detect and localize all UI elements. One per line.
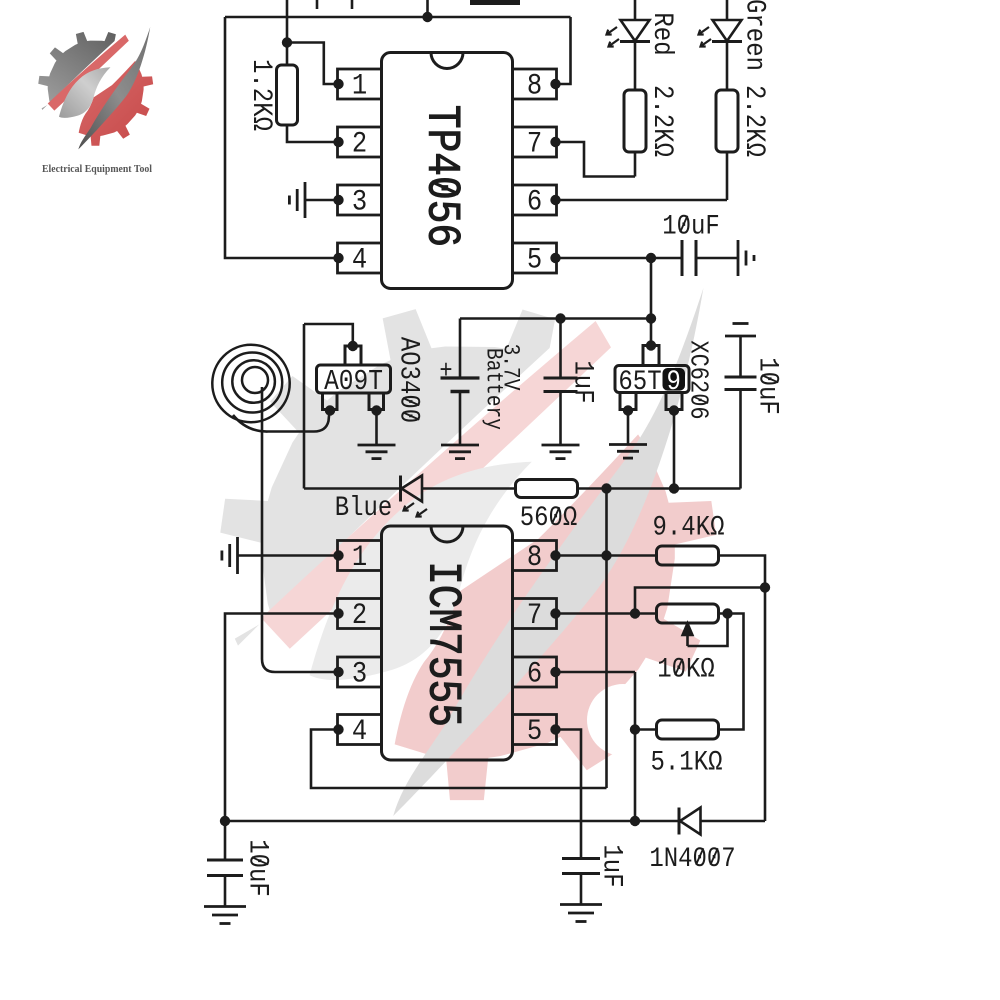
wire branch to pot left <box>635 588 765 614</box>
diode D4 1N4007 triangle <box>680 808 701 835</box>
svg-text:1N4007: 1N4007 <box>649 842 735 874</box>
U3 top pin box <box>643 346 659 366</box>
LED D1 arrow 2 <box>609 39 620 47</box>
wire pin6 right <box>556 671 636 674</box>
label XC6206 <box>683 340 712 419</box>
label C3 10uF <box>752 357 784 415</box>
label R2 2.2KΩ <box>646 85 678 157</box>
wire rail to Q1 top pin <box>304 324 353 346</box>
svg-text:1: 1 <box>352 541 367 574</box>
battery BT1 plate short <box>451 390 470 394</box>
wire coil center to U2 pin3 <box>262 387 339 672</box>
wire R6 left <box>635 728 657 731</box>
label 10KΩ <box>657 653 715 685</box>
U1 pin 1 number <box>352 70 367 103</box>
wire pot right to R6 <box>719 614 744 730</box>
U2 pin 2 number <box>352 599 367 632</box>
wire C4 bottom lead <box>224 876 227 907</box>
node Q1 top pin <box>348 341 358 351</box>
logo silver swoosh <box>59 67 111 118</box>
U2 pin 2 box <box>338 599 382 629</box>
wire R1 top lead <box>286 43 289 66</box>
label C2 1uF <box>567 360 599 403</box>
node pot left junction <box>630 608 640 618</box>
wire C3 bottom lead <box>739 390 742 489</box>
svg-text:5: 5 <box>527 715 542 748</box>
ground U3 <box>609 445 647 459</box>
wire D3 to R4 <box>422 487 516 490</box>
wire wiper to pot right <box>688 614 728 647</box>
wire coil tail to Q1 left pin <box>233 411 330 432</box>
RV1 wiper arrow <box>683 624 693 647</box>
U2 pin 5 box <box>513 715 557 745</box>
U2 pin 1 number <box>352 541 367 574</box>
cutoff black bar <box>470 0 520 5</box>
U2 pin 7 node <box>550 608 560 618</box>
svg-text:XC6206: XC6206 <box>683 340 712 419</box>
LED D2 green triangle <box>713 20 742 41</box>
resistor R2 2.2K body <box>624 90 646 152</box>
ground Q1 <box>358 445 396 459</box>
svg-text:1.2KΩ: 1.2KΩ <box>245 59 277 131</box>
Q1 top pin box <box>345 346 361 365</box>
LED D3 blue triangle <box>402 476 423 502</box>
IC U2 ICM7555 body <box>382 526 513 760</box>
wire U3 right pin down <box>673 411 676 489</box>
wire left rail down <box>303 324 306 489</box>
U2 notch <box>431 526 463 542</box>
svg-text:6: 6 <box>527 186 542 219</box>
LED D3 arrow 2 <box>417 509 428 517</box>
svg-text:Battery: Battery <box>480 348 506 430</box>
svg-text:7: 7 <box>527 599 542 632</box>
svg-text:Blue: Blue <box>335 491 393 523</box>
resistor R4 560 body <box>516 480 578 498</box>
wire pin7 to RV1 <box>556 612 657 615</box>
U1 pin 2 number <box>352 128 367 161</box>
wire C3 top lead <box>739 336 742 377</box>
svg-text:Electrical Equipment Tool: Electrical Equipment Tool <box>42 164 152 175</box>
label Red <box>646 12 678 55</box>
U1 pin 3 number <box>352 186 367 219</box>
U2 pin 1 node <box>333 550 343 560</box>
wire gnd to pin1 <box>238 554 339 557</box>
wire pin2 down to C4 <box>225 614 339 861</box>
label 1N4007 <box>649 842 735 874</box>
logo silver swoosh <box>310 462 532 680</box>
svg-text:5: 5 <box>527 244 542 277</box>
diode D4 cathode bar <box>678 808 681 835</box>
U2 pin 4 number <box>352 715 367 748</box>
svg-text:AO3400: AO3400 <box>393 337 425 423</box>
wire battery + lead <box>459 319 462 379</box>
logo gray horn <box>393 288 703 816</box>
transistor Q1 A09T body <box>317 365 391 393</box>
wire R4 to C3 <box>578 487 741 490</box>
LED D2 arrow 1 <box>699 27 710 35</box>
svg-text:1: 1 <box>352 70 367 103</box>
ground C4 <box>204 907 246 924</box>
U1 pin 8 node <box>550 79 560 89</box>
label 1.2KΩ <box>245 59 277 131</box>
U1 pin 7 box <box>513 127 557 157</box>
node U3 right pin <box>669 405 679 415</box>
capacitor C5 plate 1 <box>562 857 600 860</box>
svg-text:560Ω: 560Ω <box>520 501 578 533</box>
U2 pin 8 number <box>527 541 542 574</box>
LED D2 arrow 2 <box>701 39 712 47</box>
label 3.7V <box>497 344 523 391</box>
node Q1 right pin <box>371 405 381 415</box>
U2 pin 3 box <box>338 657 382 687</box>
svg-text:8: 8 <box>527 70 542 103</box>
Q1 left pin box <box>323 393 338 410</box>
wire R1 bottom to pin2 <box>287 125 339 142</box>
resistor R1 1.2K body <box>277 65 298 125</box>
U2 pin 1 box <box>338 541 382 571</box>
LED D1 red cathode bar <box>620 40 650 43</box>
regulator U3 65T9 body <box>615 366 689 393</box>
wire C1 to gnd <box>696 257 738 260</box>
svg-text:Green: Green <box>739 0 771 71</box>
svg-text:6: 6 <box>527 658 542 691</box>
resistor R5 9.4K body <box>657 546 719 565</box>
U1 pin 4 box <box>338 243 382 273</box>
svg-text:10KΩ: 10KΩ <box>657 653 715 685</box>
wire pin8 to top rail <box>556 17 571 84</box>
U1 pin 4 node <box>333 253 343 263</box>
node mid rail 65T9 <box>646 313 656 323</box>
Q1 right pin box <box>369 393 384 410</box>
U1 pin 5 node <box>550 253 560 263</box>
svg-text:2: 2 <box>352 599 367 632</box>
capacitor C2 plate 1 <box>544 377 578 380</box>
ground C3 flipped <box>725 324 756 337</box>
label ICM7555 <box>416 561 469 727</box>
wire top stub <box>426 0 429 17</box>
node pin8 junction <box>601 550 611 560</box>
U1 pin 6 number <box>527 186 542 219</box>
U2 pin 7 box <box>513 599 557 629</box>
svg-text:9.4KΩ: 9.4KΩ <box>653 511 725 543</box>
IC U1 TP4056 body <box>382 53 513 289</box>
capacitor C3 plate 2 <box>725 388 757 391</box>
wire top rail <box>225 16 571 19</box>
svg-text:+: + <box>439 357 452 386</box>
svg-text:2.2KΩ: 2.2KΩ <box>646 85 678 157</box>
LED D2 green top lead <box>726 0 729 21</box>
U2 pin 6 number <box>527 658 542 691</box>
inductor L1 coil <box>242 367 268 393</box>
capacitor C3 plate 1 <box>725 376 757 379</box>
label 65T <box>618 365 661 397</box>
LED D1 arrow 1 <box>607 27 618 35</box>
wire pin5 to C5 <box>556 730 582 859</box>
U3 pin marker 9 <box>663 368 686 391</box>
wire pin6 vertical down <box>634 672 637 821</box>
U1 pin 6 node <box>550 195 560 205</box>
ground TP4056 pin3 <box>289 182 305 218</box>
ground C5 <box>560 905 602 922</box>
U1 pin 7 node <box>550 137 560 147</box>
LED D1 red bottom lead <box>634 42 637 91</box>
node R6 left junction <box>630 724 640 734</box>
logo gear red sector <box>38 32 153 146</box>
label 560Ω <box>520 501 578 533</box>
U1 pin 2 box <box>338 127 382 157</box>
U1 pin 5 box <box>513 243 557 273</box>
U1 pin 7 number <box>527 128 542 161</box>
wire vcc vertical <box>605 489 608 789</box>
U1 pin 3 box <box>338 185 382 215</box>
U1 pin 5 number <box>527 244 542 277</box>
logo red band <box>48 35 129 111</box>
node U3 top pin <box>646 340 656 350</box>
wire pin4 left loop <box>225 17 339 258</box>
U2 pin 8 box <box>513 541 557 571</box>
ground C2 <box>542 445 580 459</box>
U1 pin 2 node <box>333 137 343 147</box>
capacitor C1 plate 1 <box>681 240 684 276</box>
U2 pin 4 box <box>338 715 382 745</box>
U2 pin 3 number <box>352 658 367 691</box>
logo gear gray sector <box>220 309 716 800</box>
node R1 top junction <box>282 37 292 47</box>
svg-text:4: 4 <box>352 715 367 748</box>
logo gear red sector <box>220 309 716 800</box>
svg-text:7: 7 <box>527 128 542 161</box>
wire cutoff tick A <box>316 0 319 9</box>
LED D3 arrow 1 <box>404 503 415 511</box>
U1 pin 3 node <box>333 195 343 205</box>
node R5 branch <box>760 582 770 592</box>
LED D1 red top lead <box>634 0 637 21</box>
watermark logo <box>220 288 716 816</box>
node Q1 left pin <box>325 405 335 415</box>
U3 right pin box <box>666 393 682 410</box>
capacitor C2 plate 2 <box>544 390 578 393</box>
label 9 <box>667 365 681 397</box>
svg-text:1uF: 1uF <box>567 360 599 403</box>
wire C5 bottom lead <box>580 874 583 905</box>
label R3 2.2KΩ <box>738 85 770 157</box>
svg-text:2: 2 <box>352 128 367 161</box>
wire C2 top lead <box>559 319 562 379</box>
wire pin6 to R3 <box>556 199 728 202</box>
wire gnd to pin3 <box>305 199 339 202</box>
label C5 1uF <box>596 844 628 887</box>
wire diode to right vertical <box>701 820 766 823</box>
wire to pin1 <box>287 43 339 85</box>
svg-text:8: 8 <box>527 541 542 574</box>
capacitor C1 plate 2 <box>695 240 698 276</box>
wire R2 bottom lead <box>634 152 637 177</box>
wire rail to D3 <box>304 487 400 490</box>
label AO3400 <box>393 337 425 423</box>
U2 pin 6 node <box>550 667 560 677</box>
label Green <box>739 0 771 71</box>
U2 pin 8 node <box>550 550 560 560</box>
wire battery - lead <box>459 392 462 446</box>
label Battery <box>480 348 506 430</box>
label TP4056 <box>415 105 468 247</box>
wire 1.2K top feed <box>286 0 289 43</box>
logo <box>38 27 153 149</box>
LED D1 red triangle <box>621 20 650 41</box>
label C1 10uF <box>662 210 720 242</box>
LED D2 green top lead2 <box>726 42 729 91</box>
wire pin8 to R5 <box>556 554 657 557</box>
node U3 left pin <box>623 405 633 415</box>
svg-text:10uF: 10uF <box>242 839 274 897</box>
battery BT1 plate long <box>441 376 480 379</box>
LED D3 blue cathode bar <box>399 476 402 502</box>
U1 pin 8 number <box>527 70 542 103</box>
svg-text:2.2KΩ: 2.2KΩ <box>738 85 770 157</box>
label Blue <box>335 491 393 523</box>
U2 pin 2 node <box>333 608 343 618</box>
U1 pin 8 box <box>513 69 557 99</box>
label C4 10uF <box>242 839 274 897</box>
U2 pin 7 number <box>527 599 542 632</box>
resistor R3 2.2K body <box>716 90 738 152</box>
U1 pin 1 box <box>338 69 382 99</box>
svg-text:3: 3 <box>352 658 367 691</box>
node mid rail C2 <box>555 313 565 323</box>
wire R5 right down <box>719 556 766 822</box>
wire mid rail <box>460 317 651 320</box>
node pin5 junction <box>646 253 656 263</box>
node bottom rail diode <box>630 816 640 826</box>
svg-text:TP4056: TP4056 <box>415 105 468 247</box>
U2 pin 6 box <box>513 657 557 687</box>
resistor R6 5.1K body <box>657 720 719 739</box>
logo gray horn <box>78 27 150 149</box>
U2 pin 5 number <box>527 715 542 748</box>
wire bottom rail left <box>225 820 679 823</box>
svg-text:4: 4 <box>352 244 367 277</box>
capacitor C4 plate 1 <box>207 859 243 862</box>
ground C1 <box>738 240 754 276</box>
svg-text:1uF: 1uF <box>596 844 628 887</box>
svg-text:10uF: 10uF <box>662 210 720 242</box>
label A09T <box>324 367 383 399</box>
logo red band <box>261 321 611 649</box>
U1 pin 6 box <box>513 185 557 215</box>
node pot right <box>722 608 732 618</box>
U2 pin 4 node <box>333 724 343 734</box>
U1 pin 1 node <box>333 79 343 89</box>
capacitor C5 plate 2 <box>562 872 600 875</box>
wire cutoff tick B <box>351 0 354 9</box>
U1 pin 4 number <box>352 244 367 277</box>
potentiometer RV1 10K body <box>657 604 719 623</box>
U2 pin 3 node <box>333 667 343 677</box>
node 560 wire junction A <box>601 483 611 493</box>
U2 pin 5 node <box>550 724 560 734</box>
svg-text:10uF: 10uF <box>752 357 784 415</box>
svg-text:Red: Red <box>646 12 678 55</box>
ground U2 pin1 <box>222 537 238 574</box>
label 5.1KΩ <box>651 746 723 778</box>
node top rail junction <box>422 12 432 22</box>
wire pin5 to C1 <box>556 257 683 260</box>
svg-text:ICM7555: ICM7555 <box>416 561 469 727</box>
wire Q1 right pin to gnd <box>375 411 378 446</box>
U1 notch <box>431 53 463 69</box>
logo gear gray sector <box>38 32 153 146</box>
capacitor C4 plate 2 <box>207 874 243 877</box>
wire pin7 to R2 <box>556 142 636 177</box>
wire R3 bottom lead <box>726 152 729 200</box>
label 9.4KΩ <box>653 511 725 543</box>
wire pin5 node down to mid rail <box>650 258 653 319</box>
svg-text:3: 3 <box>352 186 367 219</box>
U3 left pin box <box>620 393 636 410</box>
LED D2 green cathode bar <box>712 40 742 43</box>
wire pin4 loop <box>311 730 607 789</box>
node bottom rail left <box>220 816 230 826</box>
wire U3 left pin to gnd <box>627 411 630 445</box>
wire rail to U3 top pin <box>650 319 653 346</box>
svg-text:5.1KΩ: 5.1KΩ <box>651 746 723 778</box>
wire C2 bottom lead <box>559 392 562 446</box>
node 560 wire junction B <box>669 483 679 493</box>
label battery plus <box>439 357 452 386</box>
ground battery <box>441 445 479 459</box>
